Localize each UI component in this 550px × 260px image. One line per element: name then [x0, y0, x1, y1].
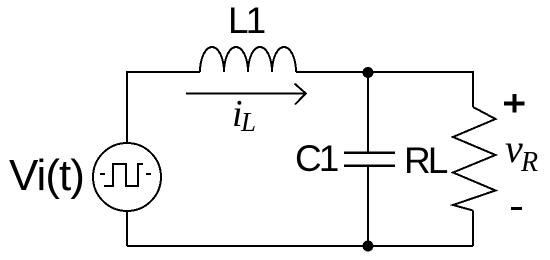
- capacitor C1 lead top: [367, 72, 369, 152]
- resistor RL lead bottom: [472, 211, 474, 247]
- voltage source square-wave symbol: [100, 164, 151, 186]
- current arrow iL: [186, 84, 306, 105]
- inductor L1: [200, 47, 296, 72]
- svg-text:C1: C1: [295, 138, 338, 179]
- resistor RL lead top: [472, 71, 474, 107]
- node A top junction dot: [363, 67, 374, 78]
- voltage source U1 circle: [93, 143, 161, 211]
- polarity minus: [511, 207, 522, 210]
- wire bottom horizontal: [127, 245, 473, 247]
- svg-text:L: L: [240, 107, 256, 137]
- svg-text:L1: L1: [228, 0, 265, 41]
- svg-text:R: R: [520, 147, 538, 178]
- capacitor C1 plates: [344, 153, 395, 166]
- svg-text:Vi(t): Vi(t): [9, 151, 84, 200]
- node B bottom junction dot: [363, 241, 374, 252]
- wire left vertical upper (corner to source top): [126, 71, 128, 144]
- wire top-left horizontal (corner to inductor): [127, 71, 200, 73]
- svg-text:RL: RL: [404, 140, 448, 181]
- wire top-right horizontal (inductor to resistor corner): [296, 71, 473, 73]
- polarity plus: [504, 94, 525, 113]
- resistor RL zigzag: [453, 107, 496, 211]
- capacitor C1 lead bottom: [367, 166, 369, 246]
- wire left vertical lower (source bottom to bottom wire): [126, 210, 128, 246]
